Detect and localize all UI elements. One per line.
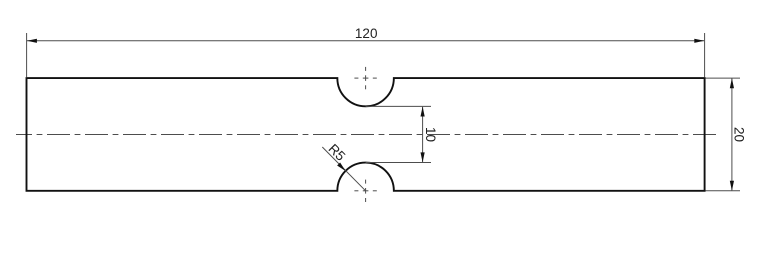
- dimension 120 line: [27, 40, 704, 42]
- center line: [16, 134, 716, 136]
- dimension 20 extension line top: [706, 77, 741, 79]
- dimension 120 value label: [355, 26, 378, 41]
- radius R5 arrow: [337, 163, 346, 172]
- dimension 120 extension line left: [26, 33, 28, 77]
- dimension 120 arrow left: [27, 39, 37, 43]
- dimension 20 arrow bottom: [730, 181, 734, 191]
- dimension 120 extension line right: [704, 33, 706, 77]
- dimension 10 arrow bottom: [421, 152, 425, 162]
- part outline: [27, 78, 705, 191]
- dimension 10 value label: [423, 127, 438, 142]
- svg-text:10: 10: [423, 127, 438, 142]
- dimension 20 arrow top: [730, 78, 734, 88]
- dimension 10 extension line bottom: [366, 162, 431, 164]
- center mark top notch: [354, 67, 376, 89]
- radius R5 value label: [325, 141, 348, 164]
- dimension 10 arrow top: [421, 107, 425, 117]
- svg-text:20: 20: [732, 127, 747, 142]
- center mark bottom notch: [354, 180, 376, 202]
- dimension 20 value label: [732, 127, 747, 142]
- dimension 20 extension line bottom: [706, 190, 741, 192]
- dimension 10 line: [422, 107, 424, 162]
- dimension 20 line: [731, 79, 733, 191]
- dimension 10 extension line top: [366, 105, 431, 107]
- dimension 120 arrow right: [694, 39, 704, 43]
- svg-text:120: 120: [355, 26, 378, 41]
- radius R5 leader line: [322, 147, 365, 191]
